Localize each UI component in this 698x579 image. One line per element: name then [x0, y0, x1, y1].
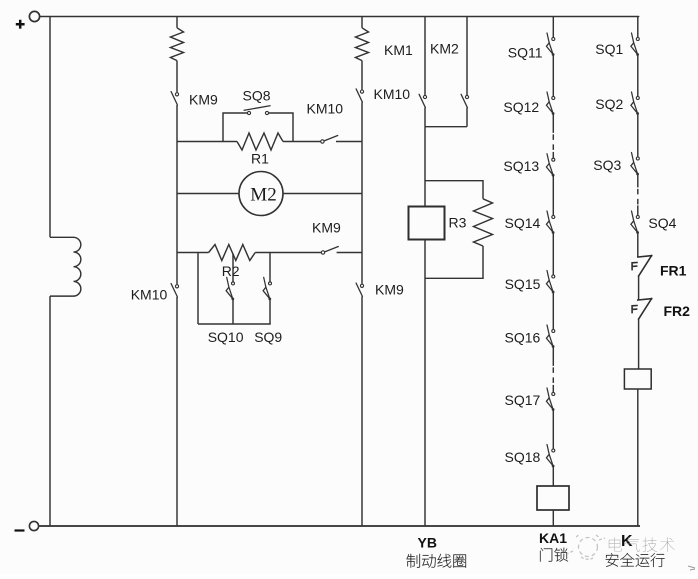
svg-text:FR1: FR1 [660, 262, 687, 278]
switch SQ15 [546, 271, 554, 294]
contact KM9 (R2 row) [321, 247, 338, 255]
node plus terminal [16, 11, 40, 28]
wire below SQ15 [552, 292, 554, 329]
wire top supply rail [40, 16, 639, 18]
label brake coil (Chinese) [407, 554, 466, 568]
svg-text:R3: R3 [449, 214, 467, 230]
watermark text (Chinese, gray) [609, 537, 675, 552]
svg-text:SQ17: SQ17 [505, 392, 541, 408]
wire SQ column 2 from top rail corner [638, 17, 639, 38]
svg-text:KM9: KM9 [189, 92, 218, 108]
wire left column upper [49, 17, 51, 238]
svg-text:SQ1: SQ1 [595, 41, 623, 57]
watermark logo [567, 534, 605, 559]
wire below SQ17 [552, 410, 554, 449]
switch SQ11 [546, 33, 554, 56]
coil YB (brake coil box) [409, 207, 445, 240]
wire column B above KM10 [361, 61, 363, 90]
wire merge KM1 KM2 [425, 126, 467, 128]
wire dashed continuation [552, 367, 554, 385]
svg-text:M2: M2 [250, 184, 276, 205]
wire below SQ2 [637, 114, 639, 157]
wire R1 row left [177, 141, 237, 143]
switch SQ18 [546, 445, 554, 468]
contact KM10 (column A) [171, 284, 179, 297]
wire left column lower [49, 296, 51, 526]
svg-text:SQ9: SQ9 [254, 329, 282, 345]
wire R2 row to column B [337, 252, 362, 254]
contact KM1 [419, 94, 427, 107]
wire below SQ12 [552, 114, 554, 133]
inductor L1 [50, 237, 81, 296]
corner mark [688, 566, 695, 570]
svg-text:KM10: KM10 [307, 101, 344, 117]
contact FR1 (thermal relay) [632, 256, 652, 276]
contact KM2 [461, 94, 469, 107]
svg-text:SQ3: SQ3 [593, 157, 621, 173]
wire column A top [176, 17, 178, 28]
wire below FR2 [638, 319, 640, 369]
wire below SQ3 [637, 174, 639, 187]
switch SQ13 [546, 154, 554, 177]
svg-text:KA1: KA1 [539, 530, 567, 546]
contact KM10 (R1 row) [321, 136, 338, 144]
wire dashed continuation [552, 134, 554, 152]
wire below SQ13 [552, 176, 554, 216]
wire between FR1 and FR2 [638, 276, 640, 300]
relay coil KA1 [537, 486, 569, 510]
switch SQ1 [631, 33, 639, 56]
wire R2 row right [255, 252, 321, 254]
svg-text:R2: R2 [222, 263, 240, 279]
switch SQ4 [631, 211, 639, 234]
wire SQ8 bypass left riser [223, 113, 247, 142]
switch SQ14 [546, 211, 554, 234]
resistor R1 [237, 133, 283, 150]
wire R2 bypass left riser [197, 253, 199, 325]
wire R2 center tap [232, 254, 234, 282]
svg-text:KM9: KM9 [375, 282, 404, 298]
resistor R3 [474, 199, 493, 246]
svg-text:SQ11: SQ11 [508, 45, 543, 61]
wire below SQ10 [232, 300, 234, 324]
wire dashed continuation [637, 189, 639, 206]
wire below KA1 coil [552, 510, 554, 526]
switch SQ9 [263, 277, 271, 300]
wire column A middle [176, 105, 178, 284]
contact KM9 (column B) [356, 283, 364, 296]
svg-text:SQ12: SQ12 [503, 99, 539, 115]
switch SQ8 [244, 106, 271, 115]
wire KM1 below contact [424, 108, 426, 127]
wire M2 row left [177, 193, 239, 195]
svg-text:SQ16: SQ16 [505, 330, 541, 346]
svg-text:SQ15: SQ15 [505, 276, 541, 292]
switch SQ16 [546, 325, 554, 348]
wire below SQ11 [552, 55, 554, 97]
svg-text:SQ2: SQ2 [595, 96, 623, 112]
wire below SQ14 [552, 233, 554, 275]
wire M2 row right [283, 193, 362, 195]
wire R3 branch bottom [425, 246, 483, 278]
wire column A above KM9 [176, 61, 178, 93]
relay coil (safety circuit) [624, 369, 651, 389]
svg-text:SQ10: SQ10 [208, 329, 244, 345]
svg-text:KM10: KM10 [374, 86, 411, 102]
svg-text:YB: YB [418, 535, 437, 551]
switch SQ17 [546, 388, 554, 411]
wire KM2 branch top [466, 17, 468, 96]
wire column A bottom [176, 297, 178, 526]
wire R1 row right [283, 141, 321, 143]
switch SQ2 [631, 92, 639, 115]
wire column B top [361, 17, 363, 28]
switch SQ10 [226, 277, 234, 300]
svg-text:SQ8: SQ8 [243, 88, 271, 104]
contact KM9 (column A) [171, 92, 179, 105]
svg-text:R1: R1 [251, 151, 269, 167]
wire SQ8 bypass right riser [269, 113, 293, 142]
node minus terminal [15, 521, 39, 530]
wire column B middle [361, 102, 363, 283]
motor M2 [239, 172, 283, 216]
switch SQ3 [631, 153, 639, 176]
wire R2 right riser [269, 253, 271, 282]
svg-text:SQ4: SQ4 [648, 215, 676, 231]
wire YB column upper [424, 127, 426, 207]
wire R1 row to column B [336, 141, 362, 143]
wire below SQ16 [552, 347, 554, 366]
wire KM2 below contact [466, 108, 468, 127]
svg-text:KM10: KM10 [131, 287, 168, 303]
wire column B bottom [361, 297, 363, 527]
svg-text:SQ13: SQ13 [503, 158, 539, 174]
wire YB column lower [424, 240, 426, 527]
resistor (upper right, unlabeled) [356, 28, 369, 61]
wire R2 row left [177, 252, 209, 254]
svg-text:KM1: KM1 [384, 42, 413, 58]
resistor (upper left, unlabeled) [171, 28, 184, 61]
wire SQ column 1 from top rail [552, 17, 554, 38]
wire below SQ4 [637, 233, 639, 257]
resistor R2 [209, 245, 256, 261]
wire below SQ1 [637, 55, 639, 97]
svg-text:KM2: KM2 [430, 41, 459, 57]
wire KM1 branch top [424, 17, 426, 96]
wire R3 branch top [425, 181, 483, 199]
svg-text:SQ18: SQ18 [505, 449, 541, 465]
wire R2 bypass bottom [198, 323, 271, 325]
label safe operation (Chinese) [606, 553, 665, 567]
wire above KA1 coil [552, 466, 554, 486]
svg-text:SQ14: SQ14 [505, 215, 541, 231]
switch SQ12 [546, 92, 554, 115]
contact FR2 (thermal relay) [632, 299, 652, 319]
svg-text:FR2: FR2 [664, 303, 691, 319]
label door lock (Chinese) [540, 548, 568, 562]
wire below SQ9 [269, 300, 271, 324]
wire bottom return rail [39, 525, 640, 527]
svg-text:KM9: KM9 [312, 220, 341, 236]
wire below safety coil [637, 389, 639, 526]
contact KM10 (column B) [356, 89, 364, 102]
